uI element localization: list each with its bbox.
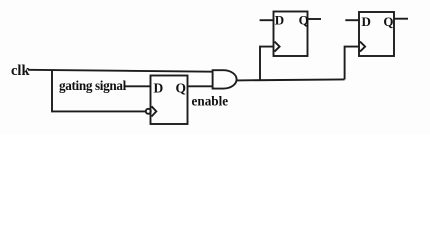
svg-text:Q: Q: [299, 13, 309, 28]
flip-flop U3 body: [359, 12, 394, 56]
wire U1 Q output to AND gate bottom input: [188, 85, 214, 87]
wire D input stub of U3: [345, 19, 359, 21]
wire clock branch up to U3: [345, 47, 359, 80]
svg-text:D: D: [362, 14, 371, 29]
flip-flop U3 clock triangle: [360, 42, 365, 52]
svg-text:gating signal: gating signal: [59, 78, 127, 93]
flip-flop U1 clock triangle: [152, 106, 157, 116]
flip-flop U2 body: [274, 12, 308, 57]
flip-flop U1 clock inversion bubble: [146, 109, 151, 114]
svg-text:enable: enable: [192, 93, 229, 108]
wire clk horizontal to AND gate top input: [28, 70, 213, 72]
flip-flop U1 body: [151, 76, 188, 125]
svg-text:D: D: [275, 13, 284, 28]
wire clk branch vertical at junction: [52, 70, 146, 111]
svg-text:Q: Q: [383, 14, 393, 29]
svg-text:clk: clk: [11, 63, 30, 79]
wire AND gate output to clock rail: [236, 79, 344, 80]
wire gating signal to D input of U1: [125, 85, 151, 87]
wire clock branch up to U2: [260, 47, 274, 80]
flip-flop U2 clock triangle: [275, 42, 280, 52]
wire U2 Q output stub: [308, 18, 322, 20]
svg-text:Q: Q: [176, 81, 187, 96]
AND gate: [213, 70, 237, 88]
wire D input stub of U2: [260, 19, 274, 21]
wire U3 Q output stub: [394, 18, 408, 20]
svg-text:D: D: [154, 81, 164, 96]
